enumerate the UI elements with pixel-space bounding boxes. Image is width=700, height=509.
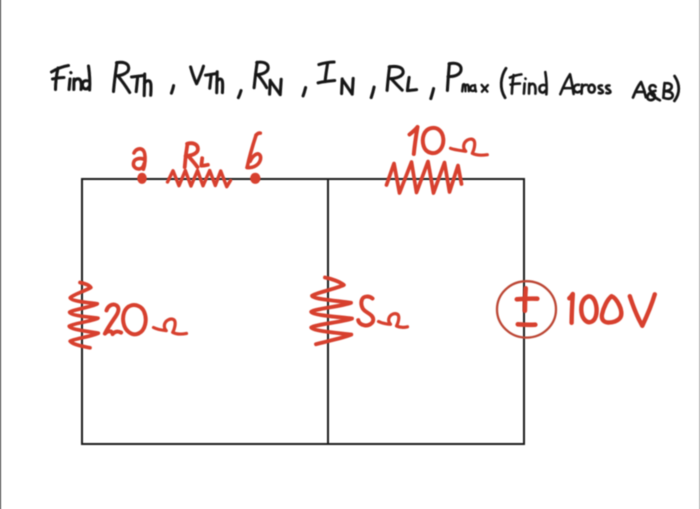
wire: top rail from node to node	[82, 178, 524, 180]
label R_L	[185, 143, 208, 167]
symbol R_Th	[114, 62, 152, 95]
V1 plus sign	[517, 288, 538, 311]
symbol R_N	[254, 62, 281, 94]
resistor 10ohm zigzag	[387, 162, 462, 194]
node a	[137, 173, 147, 184]
comma 1	[171, 86, 173, 94]
wire: middle branch vertical	[327, 179, 329, 444]
wire: right branch vertical	[523, 179, 525, 444]
symbol V_Th	[191, 66, 223, 93]
label ohm (10)	[451, 139, 488, 155]
wire: bottom rail	[82, 443, 524, 445]
symbol I_N	[318, 62, 353, 94]
label ohm (5)	[379, 314, 408, 328]
page right edge border	[699, 0, 700, 509]
parenthesis open	[501, 68, 506, 97]
page left edge border	[0, 0, 1, 509]
node b	[250, 173, 260, 184]
comma 2	[238, 91, 241, 98]
label 5	[358, 297, 373, 326]
resistor 5ohm zigzag	[311, 278, 352, 345]
word Find (small)	[510, 72, 547, 94]
comma 4	[371, 87, 374, 98]
word Across	[560, 74, 610, 94]
wire: left branch vertical	[81, 179, 83, 444]
symbol P_max	[447, 63, 488, 91]
comma 5	[431, 89, 434, 99]
voltage source V1 circle	[497, 281, 556, 337]
symbols A&B	[633, 82, 673, 100]
resistor 20ohm zigzag	[69, 283, 98, 348]
parenthesis close	[674, 76, 678, 101]
word Find	[52, 66, 90, 91]
V1 minus sign	[518, 322, 536, 327]
label a	[133, 149, 145, 169]
comma 3	[303, 88, 306, 96]
symbol R_L	[387, 66, 417, 90]
label 10	[410, 127, 444, 154]
label 100V	[569, 294, 655, 326]
resistor R_L zigzag	[168, 171, 231, 187]
label ohm (20)	[154, 319, 187, 334]
label b	[247, 133, 261, 168]
label 20	[105, 305, 146, 335]
